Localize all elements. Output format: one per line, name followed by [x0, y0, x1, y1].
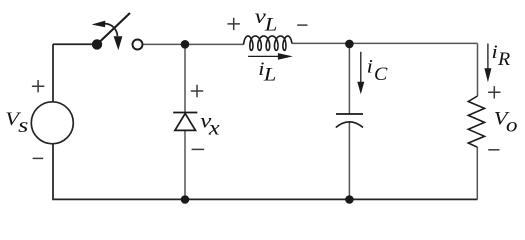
svg-text:i: i: [367, 56, 373, 77]
wire bottom: [52, 198, 477, 200]
svg-text:L: L: [264, 14, 278, 35]
wire switch to diode node to inductor: [143, 43, 244, 45]
switch arrowhead left: [92, 21, 106, 28]
wire inductor to right corner: [292, 42, 478, 44]
wire diode branch upper: [184, 44, 186, 112]
capacitor top plate: [336, 113, 363, 115]
node at capacitor top: [345, 40, 354, 49]
switch motion arc: [105, 24, 118, 37]
minus source: [33, 157, 44, 159]
plus source: [32, 80, 44, 92]
svg-text:C: C: [374, 64, 388, 84]
wire right vertical upper: [477, 43, 479, 96]
plus resistor: [488, 86, 500, 98]
svg-text:L: L: [263, 64, 277, 85]
svg-text:i: i: [492, 42, 498, 63]
iR current arrow: [487, 44, 489, 70]
iC current arrow: [360, 52, 362, 83]
node at capacitor bottom: [345, 195, 354, 204]
wire capacitor branch upper: [348, 43, 350, 114]
plus diode: [191, 85, 203, 97]
capacitor curved plate: [336, 122, 363, 128]
minus inductor: [297, 24, 307, 26]
voltage source Vs: [31, 102, 73, 144]
inductor L coil: [244, 36, 292, 50]
resistor R zigzag: [468, 96, 484, 147]
svg-text:o: o: [506, 114, 518, 136]
node at diode bottom: [181, 195, 190, 204]
svg-text:R: R: [497, 49, 510, 69]
switch arrowhead down: [114, 36, 123, 50]
svg-text:s: s: [18, 115, 28, 138]
wire top-left: [53, 43, 92, 45]
wire diode branch lower: [184, 130, 186, 199]
switch blade: [97, 13, 130, 44]
switch pivot node: [92, 39, 102, 49]
wire left vertical lower: [52, 144, 54, 200]
wire capacitor branch lower: [348, 122, 350, 199]
plus inductor: [228, 18, 240, 30]
iL current arrow: [248, 55, 279, 57]
diode cathode bar: [173, 112, 197, 114]
minus resistor: [488, 149, 499, 151]
svg-text:x: x: [208, 116, 220, 139]
wire left vertical upper: [52, 44, 54, 102]
node at diode top: [181, 40, 190, 49]
minus diode: [192, 148, 205, 150]
wire right vertical lower: [476, 147, 478, 199]
diode triangle: [175, 114, 196, 131]
switch open terminal: [133, 40, 143, 50]
